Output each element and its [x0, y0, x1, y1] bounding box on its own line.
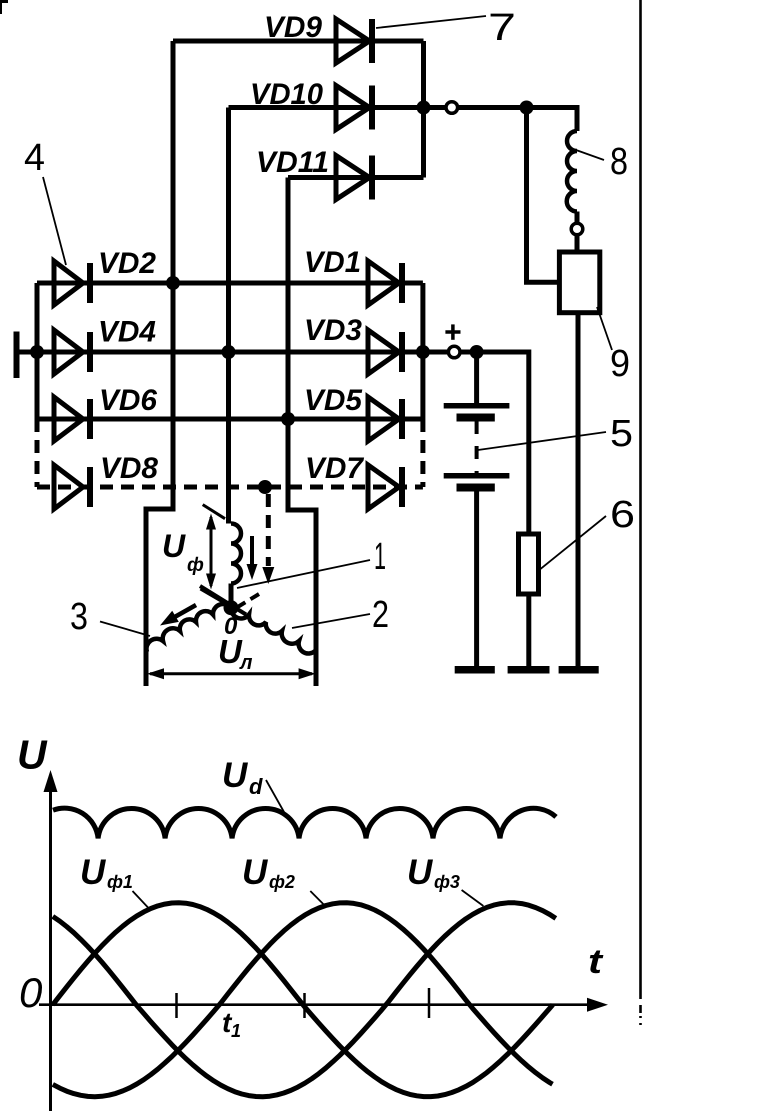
svg-text:2: 2: [372, 594, 389, 636]
svg-text:VD6: VD6: [99, 384, 157, 417]
svg-text:VD11: VD11: [256, 146, 329, 179]
svg-text:VD9: VD9: [264, 11, 322, 44]
svg-text:7: 7: [488, 7, 516, 49]
svg-text:VD2: VD2: [98, 247, 156, 280]
svg-text:VD3: VD3: [304, 314, 362, 347]
svg-text:ф3: ф3: [434, 872, 460, 892]
svg-text:л: л: [239, 652, 253, 674]
svg-text:U: U: [80, 853, 106, 892]
svg-text:U: U: [407, 853, 433, 892]
svg-text:t: t: [588, 943, 604, 981]
svg-text:9: 9: [610, 343, 630, 385]
svg-text:6: 6: [610, 494, 635, 536]
svg-text:4: 4: [24, 137, 45, 179]
svg-text:3: 3: [70, 596, 88, 638]
svg-text:U: U: [242, 853, 268, 892]
svg-text:1: 1: [374, 536, 386, 578]
svg-text:U: U: [222, 756, 248, 795]
svg-text:VD7: VD7: [305, 452, 364, 485]
svg-text:ф1: ф1: [107, 872, 133, 892]
svg-text:ф: ф: [187, 555, 204, 576]
svg-text:d: d: [249, 774, 263, 799]
svg-text:VD5: VD5: [304, 384, 363, 417]
svg-text:ф2: ф2: [269, 872, 295, 892]
svg-text:U: U: [17, 732, 48, 778]
svg-text:VD8: VD8: [100, 452, 158, 485]
svg-text:VD4: VD4: [98, 316, 156, 349]
svg-text:VD1: VD1: [304, 246, 361, 279]
svg-text:U: U: [162, 528, 186, 564]
svg-text:1: 1: [231, 1021, 241, 1041]
svg-text:8: 8: [610, 141, 628, 183]
svg-text:0: 0: [19, 969, 43, 1016]
svg-text:5: 5: [610, 413, 633, 455]
svg-text:VD10: VD10: [250, 78, 323, 111]
